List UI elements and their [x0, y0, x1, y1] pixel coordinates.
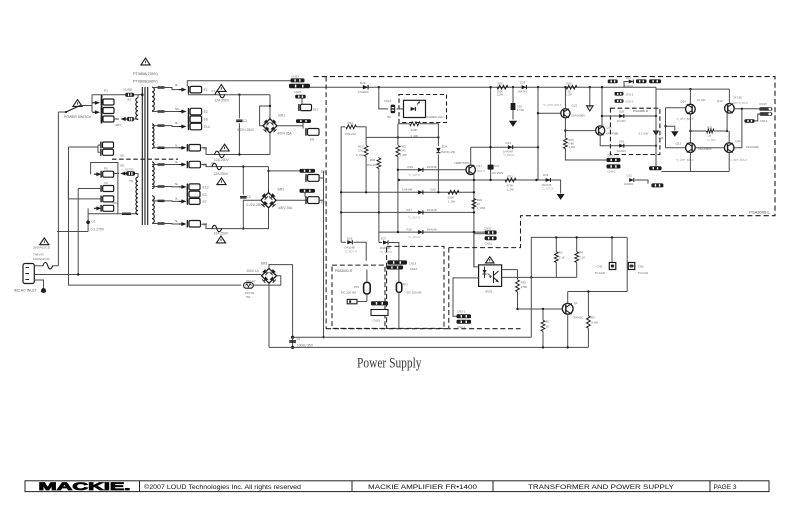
wire E1 to fuse F1: [189, 93, 271, 95]
svg-text:47: 47: [708, 134, 711, 138]
wire right bus top: [655, 87, 657, 169]
wire to CN24: [378, 86, 380, 88]
svg-text:1N4004: 1N4004: [624, 84, 634, 88]
dashed box PSA988-R: [610, 108, 660, 154]
resistor R4 5.1K: [576, 237, 578, 251]
svg-text:TO FAN: TO FAN: [595, 271, 605, 275]
svg-text:XPSA98B: XPSA98B: [606, 131, 619, 135]
wire fan box top: [531, 237, 627, 277]
svg-text:D14: D14: [543, 173, 549, 177]
transformer secondary winding 2: [152, 124, 154, 148]
svg-text:BR5: BR5: [261, 261, 267, 265]
resistor R3 5.1K: [555, 237, 557, 251]
varistor RV1: [114, 118, 119, 120]
svg-text:47.5R: 47.5R: [517, 108, 524, 112]
connector P2: [101, 107, 114, 114]
svg-text:220K: 220K: [411, 128, 418, 132]
svg-text:PSA3000-L: PSA3000-L: [749, 209, 770, 214]
wire top bus to Q13: [656, 88, 729, 90]
svg-text:1N4148: 1N4148: [542, 183, 552, 187]
svg-text:C41: C41: [401, 149, 407, 153]
svg-text:1N4148: 1N4148: [503, 150, 513, 154]
capacitor C5 0.1 275V: [87, 208, 89, 231]
wire BR2 bottom to fuse F6: [202, 208, 269, 229]
diode D27 D4454B: [379, 242, 382, 244]
connector C7: [101, 196, 114, 203]
svg-text:400V 25A: 400V 25A: [278, 132, 293, 136]
svg-text:0L: 0L: [175, 196, 179, 200]
connector CN22 long: [289, 84, 310, 88]
diode D18 D4114B: [341, 241, 346, 243]
connector E13b: [306, 196, 319, 204]
connector CN19: [371, 310, 388, 316]
diode D29 1N4004: [619, 144, 624, 148]
svg-text:Q15: Q15: [571, 104, 577, 108]
svg-text:*C_WHT_B05-D: *C_WHT_B05-D: [676, 118, 694, 121]
wire tap row E2: [158, 110, 165, 112]
dashed box right step: [449, 215, 521, 247]
dashed voltage select line: [112, 158, 178, 160]
svg-text:250VAC(6.3): 250VAC(6.3): [33, 246, 50, 250]
svg-text:CN23: CN23: [291, 74, 299, 78]
connector CN17: [347, 299, 357, 303]
svg-text:*C_SOT-D: *C_SOT-D: [408, 215, 420, 219]
connector CN18: [388, 260, 408, 264]
fuse F6 12A 250V: [212, 225, 222, 231]
wire Q11 to CN12: [734, 109, 742, 148]
svg-text:PSA98B-R: PSA98B-R: [633, 109, 649, 113]
wire Q16 base: [565, 130, 595, 132]
svg-text:Q12: Q12: [676, 141, 682, 145]
wire BR5 minus: [268, 283, 270, 347]
svg-text:2SA1096K: 2SA1096K: [746, 145, 760, 149]
svg-text:12A 250V: 12A 250V: [214, 158, 229, 162]
wire AC line up to switch: [57, 112, 59, 266]
svg-text:R35: R35: [521, 280, 527, 284]
svg-text:1_10W: 1_10W: [477, 206, 486, 210]
svg-text:CN32: CN32: [484, 226, 492, 230]
svg-text:E13: E13: [203, 186, 209, 190]
wire output columns down: [689, 153, 691, 172]
wire E5 to fuse F4: [202, 165, 269, 167]
svg-text:C35: C35: [659, 136, 664, 140]
svg-text:2SA1096K: 2SA1096K: [571, 113, 585, 117]
wire opto out bottom to fan: [502, 276, 532, 278]
fuse F7 on line: [34, 265, 43, 267]
wire tap row E13: [158, 185, 165, 187]
connector CN20: [300, 169, 316, 173]
svg-text:*C_SOT-D: *C_SOT-D: [345, 250, 357, 254]
wire C6 feed: [78, 188, 101, 190]
transformer TF3 SIC 100 OHM: [396, 282, 401, 292]
connector E8: [187, 220, 200, 227]
svg-text:400V 25A: 400V 25A: [278, 206, 293, 210]
transistor Q12 PSA1096K: [689, 114, 691, 143]
dashed box middle: [325, 77, 327, 329]
wire tap row E7: [158, 200, 165, 202]
connector J1 IEC AC INLET: [23, 264, 34, 284]
svg-text:T4(N-P): T4(N-P): [33, 252, 44, 256]
svg-text:0SL: 0SL: [120, 164, 125, 168]
svg-text:E1: E1: [204, 88, 208, 92]
resistor R28 2.2K: [566, 85, 577, 89]
transformer T1 core: [141, 87, 143, 225]
svg-text:D26: D26: [360, 81, 366, 85]
svg-text:C11: C11: [494, 164, 500, 168]
warning triangle opto: [486, 257, 494, 263]
dashed box PSA3000-L: [314, 77, 776, 216]
wire Q1 base row: [518, 308, 563, 310]
svg-text:C1: C1: [297, 337, 301, 341]
svg-text:CN3-2: CN3-2: [608, 170, 617, 174]
svg-text:FUSE: FUSE: [124, 88, 133, 92]
connector C8: [101, 205, 114, 212]
transistor Q16 PSA988: [596, 126, 605, 135]
connector E3: [187, 191, 200, 198]
svg-text:*C_WHT_B05-R: *C_WHT_B05-R: [543, 104, 562, 107]
svg-text:ZD4: ZD4: [442, 145, 448, 149]
resistor R20 9.1K: [365, 137, 367, 145]
svg-text:12A 250V: 12A 250V: [215, 99, 230, 103]
wire D13 down: [537, 147, 539, 180]
connector E13: [187, 184, 200, 191]
svg-text:IEC AC INLET: IEC AC INLET: [14, 289, 38, 293]
connector CN6 TO FAN: [628, 263, 635, 270]
bridge rectifier BR5 200V 1A: [262, 268, 277, 283]
wire tap row E8: [158, 222, 165, 224]
svg-text:CN15: CN15: [759, 102, 767, 106]
connector E1: [189, 86, 202, 93]
svg-text:4N33: 4N33: [485, 290, 493, 294]
svg-text:D29: D29: [619, 139, 624, 143]
svg-text:C3: C3: [247, 195, 251, 199]
svg-text:08L: 08L: [387, 115, 392, 119]
connector CN31: [485, 236, 497, 240]
fuse F3 12A 250V: [220, 144, 229, 151]
svg-text:PSA3000-R: PSA3000-R: [335, 269, 353, 273]
svg-text:B4744-150: B4744-150: [442, 150, 456, 154]
diode D25 1N4744: [522, 85, 527, 89]
svg-text:CN18: CN18: [409, 261, 417, 265]
wire to connector E11: [269, 170, 302, 172]
svg-text:MACKIE.: MACKIE.: [39, 481, 131, 493]
svg-text:5L: 5L: [175, 219, 179, 223]
svg-text:E10: E10: [313, 108, 319, 112]
zener ZD4 B4744-150: [437, 124, 439, 146]
wire Q13 emitter to CN15: [734, 108, 759, 110]
svg-text:R18: R18: [407, 228, 413, 232]
wire Q17 emitter vertical: [473, 174, 475, 267]
svg-text:TO FAN: TO FAN: [638, 271, 648, 275]
svg-text:R28: R28: [567, 81, 573, 85]
connector E2: [189, 108, 202, 115]
svg-text:D27: D27: [381, 237, 387, 241]
connector CN32: [474, 233, 485, 235]
svg-text:*B05-D: *B05-D: [477, 170, 485, 173]
wire Q1 collector: [567, 292, 569, 304]
wire row B: [341, 191, 474, 193]
wire B4 to fuse F3: [202, 148, 271, 155]
svg-text:Q1: Q1: [574, 301, 578, 305]
svg-text:E6: E6: [204, 118, 208, 122]
svg-text:CN12: CN12: [760, 119, 768, 123]
svg-text:1N4744: 1N4744: [518, 89, 528, 93]
wire mid top join: [365, 127, 367, 138]
svg-text:8A: 8A: [128, 98, 132, 102]
wire lower AC to relay: [69, 147, 242, 285]
svg-text:CN2-1: CN2-1: [457, 310, 466, 314]
wire switch to P1: [80, 105, 92, 107]
transistor Q13: [728, 89, 730, 104]
svg-text:1N4148: 1N4148: [402, 188, 413, 192]
wire E1 top rail to CN23: [187, 81, 290, 86]
svg-text:*C_SOT-D: *C_SOT-D: [408, 235, 420, 239]
dashed box POWER LED: [399, 95, 447, 123]
wire fan box bottom: [568, 291, 628, 293]
svg-text:0W: 0W: [246, 295, 251, 299]
svg-text:HMBT5401: HMBT5401: [455, 161, 471, 165]
wire opto out top to R35: [502, 269, 518, 271]
svg-text:15G-2W: 15G-2W: [367, 163, 378, 167]
resistor R5 0-2W: [587, 292, 589, 316]
svg-text:CN1-1: CN1-1: [626, 100, 634, 104]
capacitor C2 0.22U-250V: [238, 95, 240, 119]
svg-text:0L: 0L: [175, 121, 179, 125]
svg-text:D20: D20: [431, 188, 437, 192]
svg-text:470K: 470K: [507, 184, 514, 188]
connector P4 group: [101, 142, 114, 149]
svg-text:5L: 5L: [175, 143, 179, 147]
connector CN1-2 CN1-1: [615, 92, 624, 96]
svg-text:R29: R29: [568, 138, 574, 142]
footer table: [25, 481, 769, 492]
svg-text:R17: R17: [407, 208, 413, 212]
wire tap row B4: [158, 147, 165, 149]
svg-text:TRANSFORMER AND POWER SUPPLY: TRANSFORMER AND POWER SUPPLY: [528, 484, 675, 491]
svg-text:1N-004: 1N-004: [617, 119, 626, 123]
wire BR5 plus: [269, 265, 293, 338]
transformer secondary winding 3: [152, 162, 154, 189]
svg-text:D13: D13: [506, 141, 512, 145]
switch SW1 POWER SWITCH: [58, 111, 66, 113]
connector P3: [101, 116, 114, 123]
svg-text:0SL: 0SL: [120, 154, 125, 158]
wire relay to BR5 right: [253, 276, 280, 285]
optocoupler U1 4N33: [479, 265, 502, 287]
svg-text:Q17: Q17: [477, 164, 483, 168]
wire row A: [398, 169, 466, 171]
svg-text:POWER LED: POWER LED: [426, 115, 445, 119]
svg-text:7W: 7W: [129, 179, 134, 183]
connector E5: [187, 161, 200, 168]
zener ZD3 with ground: [512, 86, 514, 88]
connector E10: [299, 104, 312, 111]
svg-text:R21: R21: [508, 174, 514, 178]
connector CN16: [387, 266, 404, 270]
svg-text:0.22U-250V: 0.22U-250V: [237, 128, 255, 132]
svg-text:C30: C30: [358, 149, 364, 153]
wire rail components R26: [497, 85, 508, 89]
connector CN8: [651, 183, 663, 187]
connector CN7: [649, 166, 662, 170]
svg-text:POWER SWITCH: POWER SWITCH: [64, 115, 92, 119]
svg-text:C5: C5: [92, 220, 96, 224]
svg-text:C2: C2: [243, 119, 247, 123]
connector CN13: [759, 112, 772, 116]
resistor R30 220K: [448, 190, 459, 194]
transistor Q14: [689, 89, 691, 104]
svg-text:*C_B05-D: *C_B05-D: [503, 154, 514, 157]
svg-text:R5: R5: [591, 316, 595, 320]
resistor R06 15G-2W: [378, 156, 380, 159]
ground arrow Q bias: [672, 132, 678, 137]
transistor Q11 2SA1096K: [726, 113, 728, 131]
wire fan mid: [531, 276, 576, 278]
transformer primary winding upper: [136, 98, 138, 120]
svg-text:34 12K: 34 12K: [697, 98, 706, 102]
wire fan box right: [626, 237, 628, 291]
wire row C: [341, 211, 474, 213]
wire bus x602 down: [601, 87, 603, 126]
svg-text:D4114B: D4114B: [345, 246, 355, 250]
svg-text:1N4148: 1N4148: [427, 165, 438, 169]
svg-text:9_10k: 9_10k: [356, 153, 364, 157]
wire BR2 top: [268, 167, 270, 193]
connector E9: [306, 128, 319, 136]
transformer secondary winding 4: [152, 196, 154, 223]
wire BR2 out to E13b: [276, 199, 307, 201]
transistor Q15 2SA1096K: [561, 109, 570, 118]
resistor R35 470K: [517, 270, 519, 280]
bridge rectifier BR1 400V 25A: [263, 119, 277, 133]
resistor R23 47: [690, 130, 706, 132]
svg-text:BR2: BR2: [278, 188, 285, 192]
svg-text:1N4148: 1N4148: [427, 208, 438, 212]
svg-text:R23: R23: [707, 126, 713, 130]
warning triangle W6: [40, 238, 49, 245]
svg-text:1N4004: 1N4004: [358, 90, 369, 94]
svg-text:12A 250V: 12A 250V: [214, 232, 229, 236]
capacitor C35 marker: [653, 131, 659, 137]
svg-text:PT0808(230V): PT0808(230V): [133, 72, 158, 76]
svg-text:E3: E3: [203, 193, 207, 197]
svg-text:TF2: TF2: [354, 285, 360, 289]
svg-text:1K: 1K: [477, 202, 481, 206]
wire right vertical node: [323, 171, 325, 337]
wire loop upper: [91, 163, 118, 214]
svg-text:PT0808(240V): PT0808(240V): [133, 80, 158, 84]
wire Q15 emitter: [564, 118, 566, 138]
wire BR1 top: [269, 95, 271, 118]
wire Q15 collector: [564, 87, 566, 109]
svg-text:PAGE 3: PAGE 3: [714, 484, 737, 491]
svg-text:CN31: CN31: [485, 242, 493, 246]
wire rail junction Q15: [537, 86, 539, 88]
wire Q12 Q11 join: [695, 147, 724, 149]
svg-text:R4: R4: [579, 250, 583, 254]
svg-text:CN24: CN24: [384, 99, 392, 103]
connector E14: [189, 123, 202, 130]
svg-text:0.1-50V: 0.1-50V: [639, 131, 649, 135]
capacitor C1 1000U 35V: [291, 336, 294, 339]
connector E11: [306, 174, 319, 182]
svg-text:TF3: TF3: [402, 283, 408, 287]
svg-text:R3: R3: [559, 250, 563, 254]
wire bottom primary return: [57, 231, 88, 233]
svg-text:1.5U-250V: 1.5U-250V: [490, 171, 504, 175]
capacitor C3 0.22U-250V: [242, 167, 244, 195]
wire D29 row: [600, 135, 656, 146]
resistor R33 220K: [398, 123, 409, 125]
svg-text:*C_WHTN_W0-D: *C_WHTN_W0-D: [729, 102, 748, 105]
svg-text:C38: C38: [517, 104, 522, 108]
svg-text:D11: D11: [626, 76, 631, 80]
svg-text:D19: D19: [408, 165, 414, 169]
svg-text:Q11: Q11: [735, 139, 741, 143]
svg-text:1000U 35V: 1000U 35V: [297, 343, 314, 347]
resistor R32 15G-2W: [341, 126, 345, 128]
svg-text:C6: C6: [104, 181, 108, 185]
wire bottom rail plus: [293, 336, 532, 338]
dashed box PSA3000-R left: [332, 265, 385, 328]
svg-text:0L: 0L: [175, 160, 179, 164]
capacitor C11 1U-250V: [490, 87, 492, 180]
connector CN4 pair: [608, 80, 618, 84]
svg-text:SC750: SC750: [125, 167, 134, 171]
wire opto input left: [453, 278, 479, 316]
warning triangle T1: [141, 58, 150, 65]
svg-text:R32: R32: [348, 121, 354, 125]
svg-text:0.1 275V: 0.1 275V: [91, 228, 105, 232]
svg-text:Q14: Q14: [680, 99, 686, 103]
svg-text:1N4148: 1N4148: [427, 228, 438, 232]
svg-text:CN5: CN5: [597, 264, 603, 268]
svg-text:BR1: BR1: [279, 114, 286, 118]
wire Q17 collector row: [470, 147, 472, 165]
transformer secondary winding 1: [152, 87, 154, 111]
svg-text:1_0W: 1_0W: [497, 94, 504, 97]
svg-text:1_0W: 1_0W: [568, 146, 575, 149]
svg-text:*C_SOT-D: *C_SOT-D: [408, 173, 420, 177]
connector CN21: [300, 189, 316, 193]
wire to fuse F8: [92, 94, 125, 96]
svg-text:CN19: CN19: [373, 318, 381, 322]
svg-text:Q13: Q13: [717, 99, 723, 103]
svg-text:5.1K: 5.1K: [579, 255, 585, 259]
resistor R29 6.8K: [564, 138, 568, 149]
svg-text:0-2W: 0-2W: [591, 321, 598, 325]
svg-text:CN6: CN6: [638, 264, 644, 268]
svg-text:*C_WHT_B05-D: *C_WHT_B05-D: [676, 159, 694, 162]
svg-text:E9: E9: [310, 138, 314, 142]
LED D:PWR: [411, 107, 416, 111]
svg-text:34 12K: 34 12K: [733, 95, 742, 99]
transistor Q17 HMBT5401: [466, 165, 475, 174]
svg-text:15G-2W: 15G-2W: [345, 132, 356, 136]
wire base feed column: [665, 108, 667, 148]
connector B4: [187, 144, 200, 151]
svg-text:100(N)&(20): 100(N)&(20): [33, 257, 50, 261]
connector E6: [189, 116, 202, 123]
wire C7 feed: [68, 180, 101, 199]
ground chassis: [34, 280, 43, 289]
dashed box PSA3000-R right: [387, 246, 444, 328]
transformer primary winding lower: [136, 177, 138, 215]
svg-text:R26: R26: [498, 81, 504, 85]
wire core top: [138, 94, 142, 96]
wire tap row E5: [158, 163, 165, 165]
svg-text:F1: F1: [212, 89, 216, 93]
